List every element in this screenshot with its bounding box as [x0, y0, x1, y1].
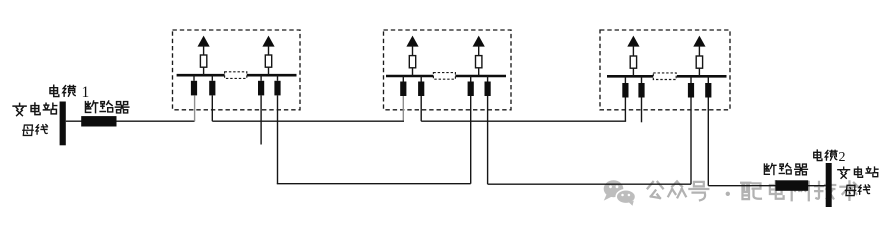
switch RMU2-D — [487, 76, 489, 82]
RMU2 bus-tie (dashed, normally open) — [433, 73, 455, 80]
RMU1 enclosure (dashed box) — [173, 30, 301, 110]
wire RMU2-C up from ring — [470, 96, 472, 184]
switch RMU2-A — [402, 76, 404, 82]
label 电缆2 — [814, 150, 846, 165]
wire (grey drop) RMU1-A to feeder level — [194, 95, 196, 121]
RMU1 bus-tie (dashed, normally open) — [225, 72, 247, 79]
substation busbar 1 — [60, 102, 66, 146]
RMU2 right bus — [455, 75, 506, 78]
wire RMU1-D to RMU2-C — [277, 183, 471, 185]
label 变电站 (right) — [838, 167, 878, 178]
switch RMU2-C — [470, 76, 472, 82]
switch RMU1-B — [211, 75, 213, 81]
wire RMU3-C up from ring — [690, 98, 692, 185]
switch RMU2-B — [420, 76, 422, 82]
RMU2 enclosure (dashed box) — [384, 30, 512, 110]
wire (grey drop) RMU2-A — [402, 96, 404, 121]
wire RMU3-D down — [707, 98, 709, 186]
RMU3 enclosure (dashed box) — [600, 30, 730, 110]
fuse RMU1b — [265, 55, 271, 67]
label 断路器 (right) — [764, 164, 807, 175]
fuse RMU2b — [476, 56, 482, 68]
RMU3 right bus — [677, 75, 727, 78]
fuse RMU3a — [630, 56, 636, 68]
spare stub RMU3-B — [641, 98, 643, 123]
wire RMU2-D to RMU3-C — [488, 183, 691, 185]
wire RMU1-B to RMU2-A — [212, 120, 404, 122]
switch RMU3-D — [707, 76, 709, 83]
switch RMU3-A — [624, 76, 626, 83]
RMU2 left bus — [386, 75, 433, 78]
wire RMU1-B down — [211, 95, 213, 121]
feeder arrow RMU3b — [693, 36, 705, 47]
switch RMU1-C — [260, 75, 262, 81]
switch RMU1-A — [193, 75, 195, 81]
spare stub RMU1-C — [260, 95, 262, 144]
breaker QF1 — [81, 116, 116, 126]
feeder arrow RMU2b — [473, 36, 485, 47]
fuse RMU1a — [200, 55, 206, 67]
breaker QF2 — [775, 180, 808, 191]
wire RMU2-D down — [487, 96, 489, 184]
feeder arrow RMU3a — [627, 36, 639, 47]
watermark text 公众号·配电网技术 — [648, 181, 859, 200]
wire: busbar1 to RMU1-A — [66, 120, 195, 122]
RMU1 left bus — [177, 74, 225, 77]
switch RMU3-C — [690, 76, 692, 83]
feeder arrow RMU2a — [406, 36, 418, 47]
wire RMU3-D to busbar 2 — [708, 185, 825, 187]
watermark wechat logo — [604, 180, 636, 206]
RMU1 right bus — [247, 74, 297, 77]
wire RMU2-B down — [420, 96, 422, 121]
svg-text:1: 1 — [82, 84, 90, 101]
svg-text:2: 2 — [839, 150, 846, 165]
switch RMU1-D — [277, 75, 279, 81]
label 母线 (left) — [23, 125, 48, 136]
fuse RMU3b — [696, 56, 702, 68]
label 断路器 (left) — [85, 101, 128, 113]
label 母线 (right) — [845, 185, 869, 196]
wire RMU2-B to RMU3-A — [421, 120, 626, 122]
feeder arrow RMU1a — [198, 36, 210, 47]
wire RMU1-D down — [277, 95, 279, 183]
RMU3 left bus — [607, 75, 653, 78]
feeder arrow RMU1b — [262, 36, 274, 47]
wire RMU3-A down — [624, 98, 626, 122]
label 电缆1 — [50, 84, 89, 101]
label 变电站 (left) — [13, 103, 57, 116]
RMU3 bus-tie (dashed, normally open) — [653, 73, 676, 80]
fuse RMU2a — [409, 56, 415, 68]
switch RMU3-B — [641, 76, 643, 83]
substation busbar 2 — [826, 163, 832, 207]
